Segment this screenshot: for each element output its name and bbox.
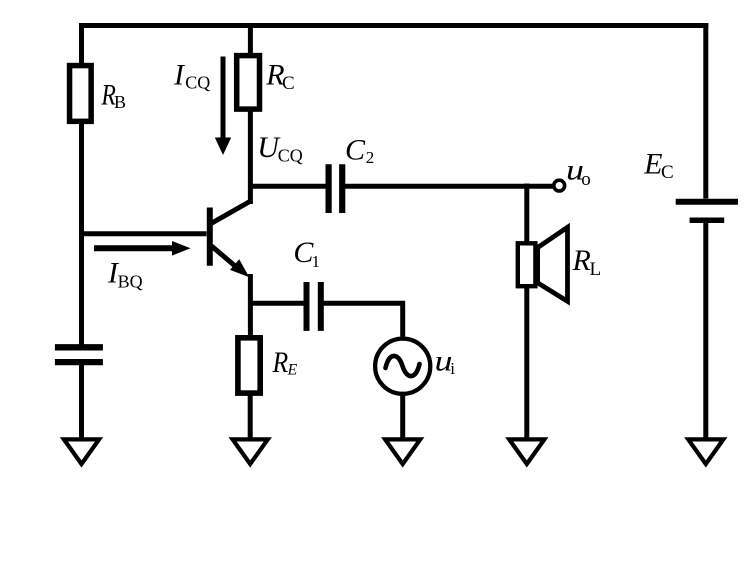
wire left rail upper	[79, 23, 84, 63]
svg-text:R: R	[572, 244, 591, 277]
svg-text:BQ: BQ	[118, 272, 143, 292]
label ui	[435, 344, 456, 378]
current arrow ICQ	[215, 57, 231, 156]
resistor RE	[238, 338, 260, 393]
wire collector to C2	[250, 184, 326, 189]
ground (battery)	[688, 439, 723, 464]
svg-text:R: R	[272, 346, 289, 379]
node uo terminal	[554, 180, 565, 191]
label C2	[345, 134, 374, 167]
label IBQ	[107, 256, 143, 291]
speaker RL	[518, 227, 568, 301]
svg-text:C: C	[661, 162, 674, 183]
label RL	[572, 244, 602, 280]
svg-text:CQ: CQ	[278, 146, 303, 166]
svg-text:E: E	[643, 148, 662, 181]
svg-text:i: i	[450, 359, 455, 378]
wire RC top	[248, 23, 253, 53]
current arrow IBQ	[94, 241, 191, 256]
wire battery to ground	[703, 223, 708, 440]
svg-text:B: B	[114, 92, 126, 112]
ground (emitter)	[233, 439, 268, 464]
wire top rail	[79, 23, 708, 28]
transistor Q1 base bar	[207, 208, 213, 266]
wire emitter vertical	[248, 274, 253, 336]
wire speaker to ground	[524, 286, 529, 440]
ground (source)	[385, 439, 420, 464]
wire C2 to output	[345, 184, 553, 189]
resistor RC	[237, 56, 260, 110]
svg-text:I: I	[173, 59, 186, 92]
transistor Q1 emitter lead	[212, 246, 250, 277]
svg-text:o: o	[581, 169, 591, 190]
label ICQ	[173, 59, 210, 93]
label EC	[643, 148, 674, 184]
wire emitter to C1	[250, 301, 304, 306]
battery EC	[676, 202, 738, 220]
wire collector vertical	[248, 112, 253, 205]
label RC	[265, 59, 294, 95]
wire RE to ground	[248, 395, 253, 441]
wire source to ground	[400, 396, 405, 440]
svg-text:CQ: CQ	[185, 73, 210, 93]
label RB	[101, 79, 126, 112]
resistor RB	[70, 66, 92, 122]
wire C1 to source	[324, 303, 403, 336]
ground (speaker)	[509, 439, 544, 464]
svg-text:2: 2	[366, 148, 375, 167]
svg-text:1: 1	[312, 252, 321, 271]
wire left rail middle	[79, 124, 84, 345]
wire left rail lower	[79, 365, 84, 440]
svg-text:L: L	[590, 259, 602, 280]
ground (left rail)	[64, 439, 99, 464]
wire right rail	[703, 23, 708, 199]
label uo	[566, 154, 591, 190]
capacitor (left bypass)	[55, 347, 103, 362]
capacitor C1	[307, 282, 321, 331]
label RE	[272, 346, 298, 379]
source ui	[375, 339, 430, 394]
label UCQ	[257, 131, 303, 166]
transistor Q1 collector lead	[211, 202, 250, 224]
label C1	[293, 236, 320, 271]
wire output junction down	[524, 184, 529, 246]
wire base	[82, 231, 207, 236]
svg-text:C: C	[345, 134, 366, 167]
capacitor C2	[329, 164, 343, 213]
svg-text:C: C	[282, 73, 295, 94]
svg-text:E: E	[287, 361, 298, 378]
